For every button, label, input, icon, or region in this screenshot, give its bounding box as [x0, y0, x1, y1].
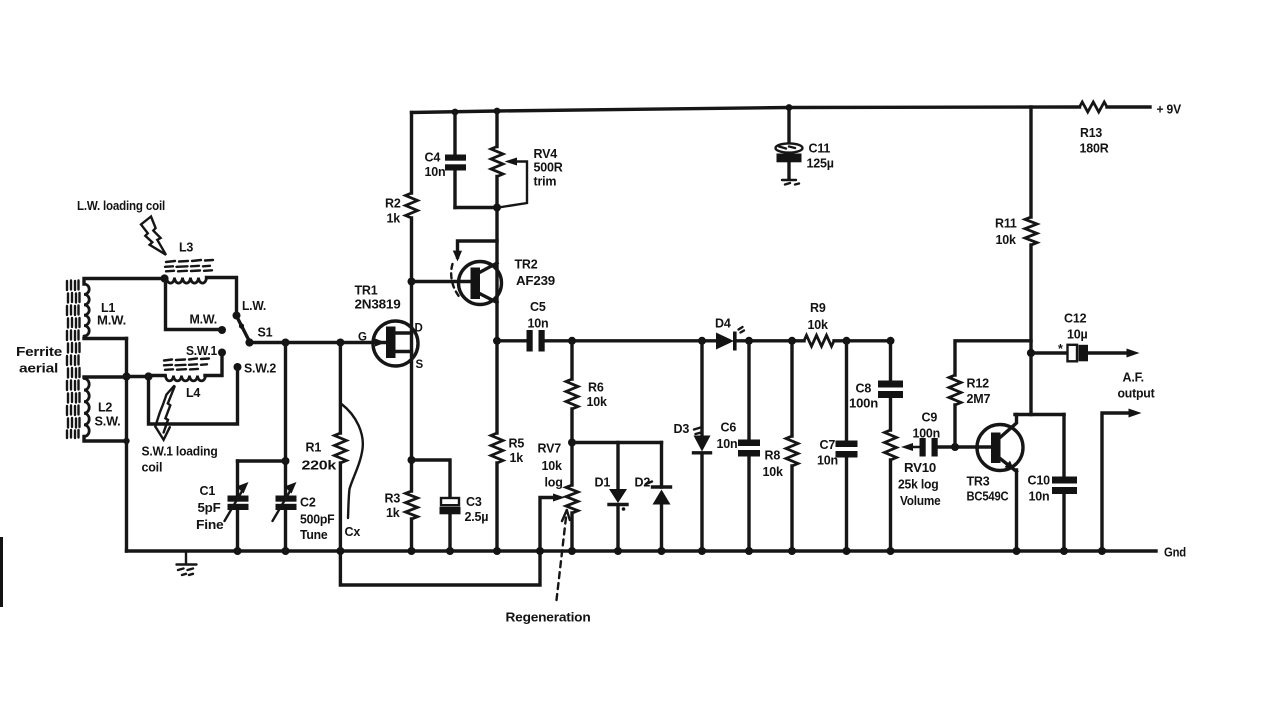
wire: signal line C5 to D4 [545, 339, 716, 342]
node: C6 tap on signal line [745, 337, 753, 345]
node: L1/L3 junction [160, 274, 168, 282]
diode D3 [674, 341, 711, 551]
svg-text:A.F.: A.F. [1123, 371, 1144, 385]
node: C12 tap on R11 line [1027, 349, 1035, 357]
node: C3 tap on source line [408, 456, 416, 464]
svg-text:500pF: 500pF [300, 513, 335, 527]
node: S1 contact S.W.1 [186, 344, 226, 358]
node: junction C4/RV4 bottom [493, 204, 501, 212]
wire: L1 bottom lead [84, 337, 127, 340]
svg-text:125µ: 125µ [807, 157, 834, 171]
wire: A.F. output arrow 1 [1127, 349, 1140, 358]
wire: C4-RV4 bottom tie [455, 206, 497, 209]
svg-text:RV4: RV4 [534, 147, 558, 161]
capacitor C2 (variable, Tune) [273, 482, 336, 542]
node: R6/RV7/D1 junction [568, 439, 576, 447]
svg-text:C12: C12 [1064, 312, 1087, 326]
node: gate line junction at R1 [336, 339, 344, 347]
svg-text:R3: R3 [385, 492, 401, 506]
svg-text:2N3819: 2N3819 [355, 298, 401, 312]
svg-text:R9: R9 [810, 301, 826, 315]
capacitor C8 [849, 341, 903, 430]
svg-text:D1: D1 [595, 476, 611, 490]
node: S1 contact L.W. [233, 299, 267, 320]
node: ground junction D3 [698, 547, 706, 555]
svg-text:C9: C9 [922, 411, 938, 425]
node: R12 tap on base line [951, 443, 959, 451]
svg-text:C2: C2 [300, 496, 316, 510]
lightning arrow to L3 [141, 217, 166, 255]
svg-text:10k: 10k [763, 465, 784, 479]
svg-text:Ferrite: Ferrite [16, 345, 62, 359]
wire: L4 right lead to S.W.1 contact [205, 353, 222, 376]
wire: TR1 drain to TR2 base [412, 280, 472, 283]
wire: L1 top lead / aerial top wire [84, 279, 165, 285]
node: C8 end of signal line [887, 337, 895, 345]
resistor R6 [566, 341, 607, 443]
node: L4 left junction [144, 372, 152, 380]
capacitor C1 (variable, Fine) [196, 482, 249, 532]
node: ground junction C3 [446, 547, 454, 555]
capacitor C9 [913, 411, 941, 457]
svg-text:R1: R1 [306, 441, 322, 455]
wire: RV7 wiper loop below ground [340, 498, 554, 586]
wire: L2 bottom lead [84, 437, 127, 442]
scan artifact left edge [0, 537, 3, 607]
node: ground junction D2 [658, 547, 666, 555]
switch S1 arm [237, 316, 273, 342]
capacitor C6 [717, 341, 761, 551]
svg-text:C5: C5 [530, 300, 546, 314]
wire: TR3 collector tie [1015, 413, 1064, 416]
potentiometer RV10 (Volume) [885, 430, 941, 551]
wire: C1 branch [236, 461, 239, 551]
wire: signal line C5 left lead [497, 339, 527, 342]
resistor R1 [302, 343, 347, 552]
wire: TR3 emitter to ground [1015, 470, 1018, 551]
label: A.F. output [1118, 371, 1156, 401]
svg-text:500R: 500R [534, 161, 563, 175]
svg-text:S.W.2: S.W.2 [244, 362, 276, 376]
dashed arrow to RV7 wiper [557, 510, 570, 600]
wire: A.F. output arrow 2 [1129, 409, 1142, 418]
wire: +9V rail right of R13 [1107, 105, 1150, 108]
svg-text:2M7: 2M7 [967, 392, 991, 406]
capacitor C11 [776, 108, 834, 185]
svg-text:RV7: RV7 [538, 442, 562, 456]
node: S1 pole [245, 338, 253, 346]
svg-text:10n: 10n [1029, 490, 1050, 504]
node: D3 tap on signal line [698, 337, 706, 345]
svg-text:R8: R8 [765, 449, 781, 463]
node: S1 contact S.W.2 [234, 362, 277, 376]
svg-text:180R: 180R [1080, 142, 1109, 156]
capacitor Cx (gimmick) [342, 404, 363, 539]
wire: +9V top rail [412, 107, 1080, 113]
svg-text:TR3: TR3 [967, 475, 990, 489]
node: rail junction at C4 branch [452, 109, 459, 116]
transistor TR2 AF239 [451, 241, 555, 305]
svg-text:aerial: aerial [19, 362, 58, 376]
svg-text:C7: C7 [820, 438, 836, 452]
svg-text:10k: 10k [587, 395, 608, 409]
svg-text:output: output [1118, 387, 1156, 401]
svg-text:*: * [1058, 342, 1063, 356]
node: rail junction at RV4 branch [494, 108, 501, 115]
resistor R13 [1080, 102, 1109, 156]
wire: ground rail [127, 549, 1157, 552]
resistor R12 [949, 341, 1031, 447]
svg-text:M.W.: M.W. [190, 313, 218, 327]
transistor TR3 BC549C [967, 415, 1024, 504]
wire: C3 branch [412, 460, 451, 551]
capacitor C5 [527, 300, 549, 352]
svg-text:S.W.: S.W. [95, 415, 121, 429]
svg-text:trim: trim [534, 175, 557, 189]
svg-text:C4: C4 [425, 151, 441, 165]
node: L2 top / L4 junction [122, 372, 130, 380]
node: ground junction RV7 wiper crossing [536, 547, 544, 555]
svg-text:10k: 10k [996, 233, 1017, 247]
svg-text:C8: C8 [856, 382, 872, 396]
wire: S1 pole to TR1 gate line [250, 341, 387, 344]
svg-text:Tune: Tune [300, 528, 328, 542]
svg-text:TR1: TR1 [355, 284, 378, 298]
potentiometer RV7 (Regeneration) [538, 442, 579, 552]
node: ground junction R3 [408, 547, 416, 555]
capacitor C3 [440, 495, 489, 524]
wire: L3 to L.W. contact [207, 278, 237, 313]
svg-text:+ 9V: + 9V [1157, 103, 1182, 117]
wire: C2 branch [284, 343, 287, 552]
svg-text:M.W.: M.W. [97, 314, 126, 328]
svg-text:L4: L4 [186, 386, 200, 400]
node: R8 tap on signal line [788, 337, 796, 345]
svg-text:C3: C3 [466, 495, 482, 509]
svg-text:S1: S1 [258, 326, 273, 340]
wire: signal line D4 to R9 [737, 339, 804, 342]
node: ground junction RV10 [887, 547, 895, 555]
svg-text:25k log: 25k log [898, 478, 939, 492]
wire: D1/D2 top tie [572, 441, 662, 444]
svg-text:C6: C6 [721, 421, 737, 435]
wire: L4 left lead [149, 374, 166, 377]
svg-text:C11: C11 [809, 142, 831, 156]
node: ground junction R8 [788, 547, 796, 555]
inductor L3 (L.W. loading coil) [165, 241, 213, 284]
node: C5/R5 junction on collector line [493, 337, 501, 345]
svg-text:D2: D2 [635, 476, 651, 490]
node: C1 tie junction on C2 line [282, 457, 290, 465]
svg-text:C10: C10 [1028, 474, 1051, 488]
svg-text:Gnd: Gnd [1164, 546, 1186, 560]
svg-text:L.W. loading coil: L.W. loading coil [77, 199, 165, 213]
node: ground junction C7 [843, 547, 851, 555]
svg-text:AF239: AF239 [516, 274, 555, 288]
resistor R11 [995, 107, 1037, 415]
svg-text:BC549C: BC549C [967, 490, 1009, 504]
capacitor C10 [1028, 415, 1078, 552]
svg-text:L2: L2 [98, 401, 112, 415]
node: ground junction R5 [493, 547, 501, 555]
diode D1 [595, 443, 628, 552]
ground symbol [177, 551, 197, 575]
svg-text:1k: 1k [510, 451, 524, 465]
svg-text:coil: coil [142, 461, 163, 475]
resistor R2 [385, 193, 418, 226]
svg-text:Regeneration: Regeneration [506, 611, 591, 625]
transistor TR1 2N3819 [355, 284, 424, 372]
wire: S.W.2 contact to L4 left junction [149, 367, 238, 424]
svg-text:Cx: Cx [345, 525, 361, 539]
svg-text:C1: C1 [200, 484, 216, 498]
svg-text:Volume: Volume [900, 494, 941, 508]
node: C7 tap on signal line [843, 337, 851, 345]
capacitor C7 [817, 341, 858, 551]
node: ground junction C2 [282, 547, 290, 555]
node: ground junction C6 [745, 547, 753, 555]
svg-text:10k: 10k [808, 318, 829, 332]
resistor R9 [804, 301, 834, 346]
node: gate line junction at C2 [282, 339, 290, 347]
svg-text:10n: 10n [717, 437, 738, 451]
wire: C1 top tie [238, 459, 286, 462]
label: Ferrite aerial [16, 345, 62, 376]
svg-text:RV10: RV10 [904, 461, 936, 475]
svg-text:log: log [545, 476, 563, 490]
svg-text:2.5µ: 2.5µ [465, 510, 489, 524]
wire: C4 branch [453, 112, 456, 208]
wire: A.F. output 2 ground return [1102, 413, 1129, 551]
svg-text:10n: 10n [425, 165, 446, 179]
svg-text:R11: R11 [995, 217, 1017, 231]
node: ground junction C10 [1060, 547, 1068, 555]
svg-text:100n: 100n [913, 427, 941, 441]
svg-text:R12: R12 [967, 377, 990, 391]
capacitor C4 [425, 151, 467, 180]
potentiometer RV4 [491, 147, 563, 208]
node: ground junction R1/Cx loop [336, 547, 344, 555]
wire: left junction vertical (L1/L2/L4) [125, 339, 128, 552]
node: ground junction D1 [614, 547, 622, 555]
ferrite aerial rod [67, 281, 80, 439]
resistor R3 [385, 491, 418, 520]
svg-text:5pF: 5pF [198, 501, 222, 515]
node: S1 contact M.W. [218, 326, 226, 334]
svg-text:D: D [415, 323, 423, 335]
wire: M.W. tap branch [166, 279, 219, 330]
lightning arrow to L4 [155, 386, 174, 440]
node: ground junction C1 [234, 547, 242, 555]
svg-text:D3: D3 [674, 422, 690, 436]
wire: C9 to TR3 base [938, 445, 991, 448]
svg-text:R13: R13 [1080, 126, 1102, 140]
diode D2 [635, 443, 671, 552]
svg-text:S.W.1 loading: S.W.1 loading [142, 445, 218, 459]
svg-text:D4: D4 [715, 317, 731, 331]
wire: RV4 / TR2 collector / R5 vertical [495, 111, 498, 551]
svg-text:10n: 10n [528, 317, 549, 331]
label: S.W.1 loading coil annotation [142, 445, 218, 475]
svg-text:1k: 1k [387, 212, 401, 226]
wire: signal line R9 to C8 [834, 339, 891, 342]
inductor L4 (S.W.1 loading coil) [164, 359, 209, 401]
inductor L1 [84, 284, 126, 336]
node: L2 bottom junction [123, 438, 129, 444]
capacitor C12 [1031, 312, 1128, 362]
svg-text:L3: L3 [179, 241, 193, 255]
svg-text:R5: R5 [509, 437, 525, 451]
svg-text:100n: 100n [849, 397, 878, 411]
svg-text:Fine: Fine [196, 518, 224, 532]
node: ground junction TR3 emitter [1013, 547, 1021, 555]
svg-text:220k: 220k [302, 459, 337, 473]
svg-text:1k: 1k [386, 506, 400, 520]
node: ground junction output return [1098, 547, 1106, 555]
node: rail junction at C11 [786, 104, 793, 111]
node: ground junction RV7 [568, 547, 576, 555]
svg-text:R6: R6 [588, 381, 604, 395]
svg-text:L.W.: L.W. [242, 299, 266, 313]
svg-text:S.W.1: S.W.1 [186, 344, 217, 358]
wire: R2/TR1 drain-source vertical [410, 113, 413, 552]
node: TR2 base tap on drain line [408, 278, 416, 286]
resistor R5 [491, 433, 524, 465]
svg-text:R2: R2 [385, 197, 401, 211]
svg-text:10µ: 10µ [1067, 328, 1088, 342]
svg-text:TR2: TR2 [515, 258, 538, 272]
inductor L2 [84, 379, 121, 437]
svg-text:10n: 10n [817, 454, 838, 468]
svg-text:10k: 10k [542, 459, 563, 473]
svg-text:S: S [416, 359, 424, 371]
diode D4 [715, 317, 744, 351]
wire: L2 top lead [84, 375, 127, 378]
wire: junction tie to L4 [127, 375, 149, 378]
resistor R8 [763, 341, 799, 551]
node: R6 tap on signal line [568, 337, 576, 345]
